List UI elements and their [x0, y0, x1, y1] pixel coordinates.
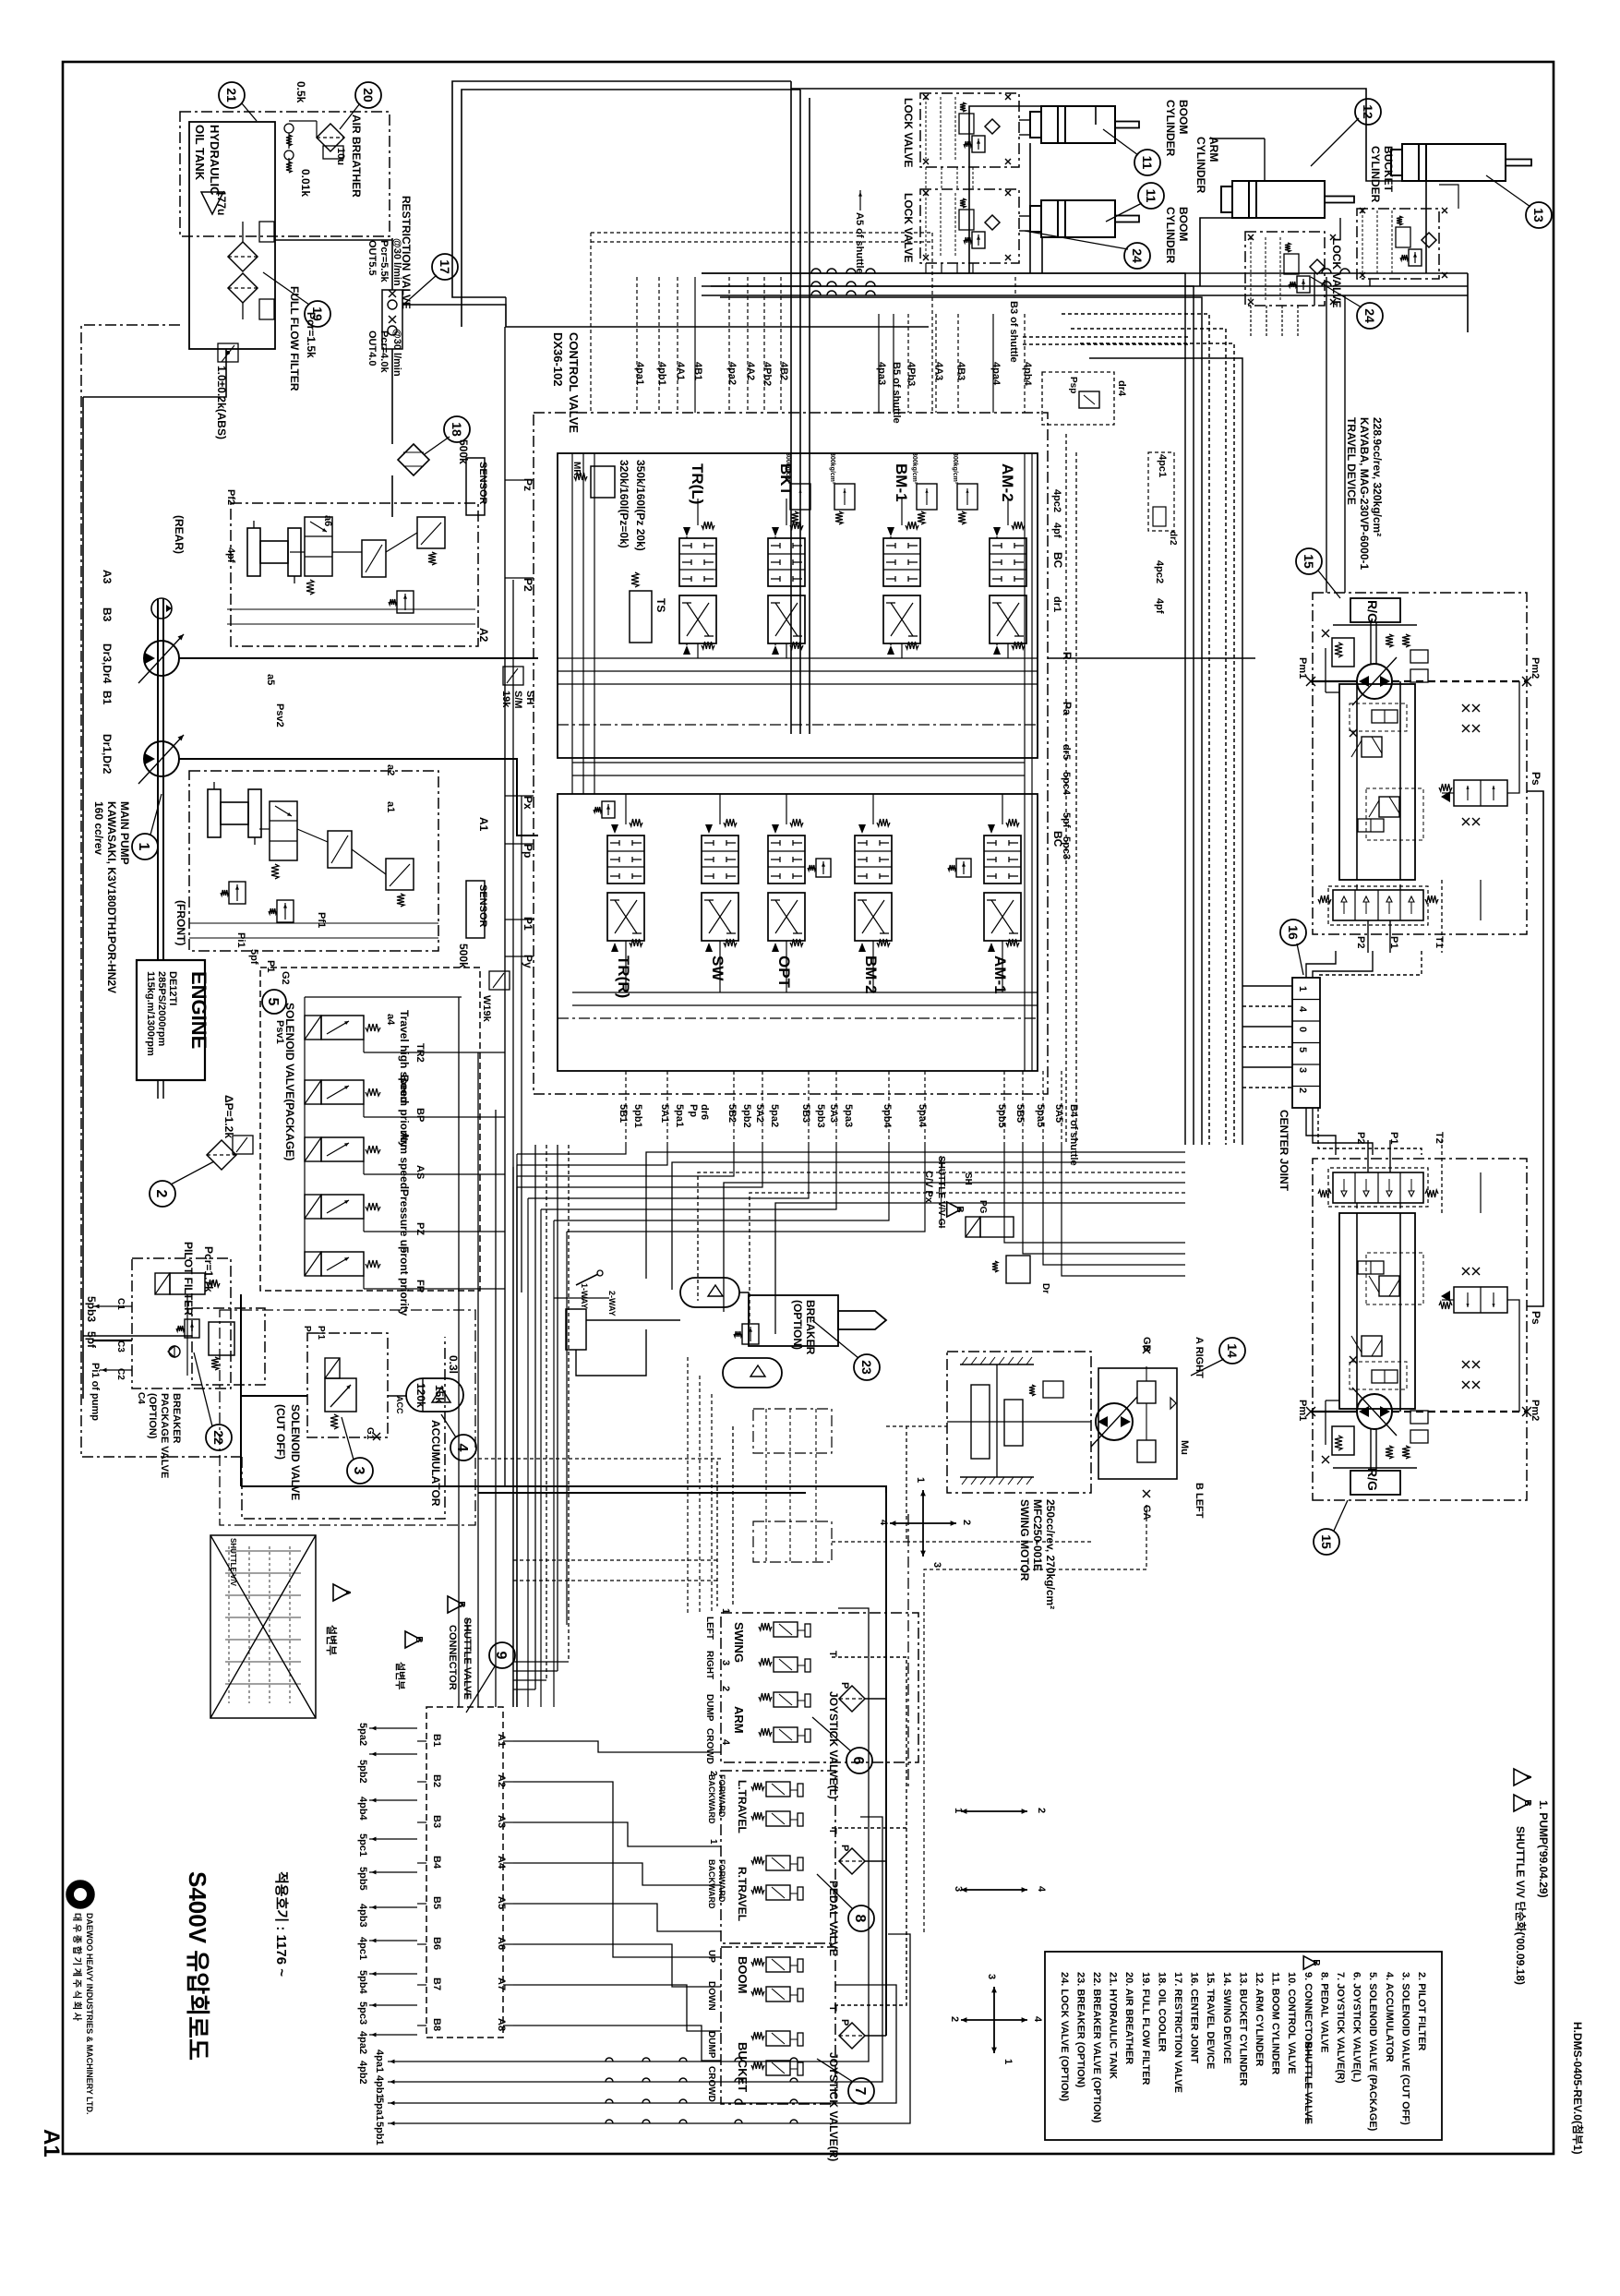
tank-restriction wires	[391, 238, 393, 290]
svg-text:4: 4	[1036, 1886, 1047, 1893]
svg-text:KAYABA, MAG-230VP-6000-1: KAYABA, MAG-230VP-6000-1	[1358, 417, 1371, 571]
svg-text:4: 4	[720, 1739, 731, 1746]
svg-text:17. RESTRICTION VALVE: 17. RESTRICTION VALVE	[1172, 1972, 1183, 2093]
svg-text:A5: A5	[496, 1896, 507, 1909]
svg-text:Psv2: Psv2	[274, 703, 285, 727]
svg-text:TRAVEL DEVICE: TRAVEL DEVICE	[1345, 417, 1358, 505]
parking brake	[1332, 1426, 1354, 1455]
svg-text:BREAKER: BREAKER	[804, 1300, 817, 1355]
svg-text:S/M: S/M	[512, 691, 523, 709]
svg-text:dr2: dr2	[1168, 531, 1178, 546]
svg-text:7: 7	[852, 2087, 868, 2096]
solenoid valve Pressure up	[305, 1195, 321, 1219]
cv spool risers upper	[697, 643, 699, 658]
svg-text:16. CENTER JOINT: 16. CENTER JOINT	[1189, 1972, 1200, 2063]
svg-text:4A2: 4A2	[745, 362, 756, 380]
travel internal pipes	[1326, 1400, 1339, 1401]
cv spool TR(L)	[679, 538, 716, 586]
breaker accumulators	[680, 1278, 739, 1307]
svg-text:3: 3	[986, 1974, 997, 1979]
breaker solenoid valve	[155, 1273, 170, 1294]
svg-text:A1: A1	[39, 2129, 64, 2158]
svg-text:8: 8	[852, 1915, 868, 1923]
control valve inner lower box	[558, 794, 1038, 1071]
legend box	[1045, 1952, 1442, 2140]
swing motor box 14	[947, 1352, 1091, 1493]
svg-text:Pcr=5.5k: Pcr=5.5k	[378, 240, 390, 282]
cv spool risers lower	[625, 794, 627, 824]
svg-text:177u: 177u	[215, 190, 228, 215]
solenoid valve Boom priority	[305, 1080, 321, 1104]
callout 20	[355, 82, 381, 108]
callout 8	[848, 1905, 874, 1931]
svg-text:BREAKER: BREAKER	[171, 1393, 182, 1443]
svg-text:CYLINDER: CYLINDER	[1369, 146, 1382, 203]
svg-text:OPT: OPT	[775, 956, 793, 989]
tank drain	[218, 343, 238, 362]
svg-text:B3: B3	[101, 607, 114, 622]
lock valve drop stubs	[925, 167, 927, 189]
svg-text:19: 19	[310, 307, 325, 321]
svg-text:B5: B5	[431, 1896, 442, 1909]
breaker option 23	[749, 1295, 838, 1346]
1-way 2-way valve	[566, 1309, 586, 1350]
cv top feeders	[636, 277, 638, 413]
svg-text:4pc2: 4pc2	[1051, 489, 1062, 512]
svg-text:R.TRAVEL: R.TRAVEL	[736, 1867, 749, 1921]
svg-text:L.TRAVEL: L.TRAVEL	[736, 1780, 749, 1833]
svg-text:DOWN: DOWN	[706, 1981, 716, 2011]
svg-text:2. PILOT FILTER: 2. PILOT FILTER	[1416, 1972, 1427, 2050]
solenoid valve Front priority	[305, 1252, 321, 1276]
travel motor	[1357, 1394, 1392, 1429]
svg-text:5pa5: 5pa5	[1035, 1104, 1046, 1127]
svg-text:160 cc/rev: 160 cc/rev	[92, 801, 105, 855]
callout 11	[1134, 150, 1160, 175]
svg-text:320k/160l(Pz=0k): 320k/160l(Pz=0k)	[618, 460, 630, 548]
svg-text:DUMP: DUMP	[704, 1694, 714, 1722]
svg-text:5pb1: 5pb1	[632, 1104, 643, 1128]
svg-text:9. CONNECTOR: 9. CONNECTOR	[1302, 1972, 1314, 2049]
travel motor	[1357, 664, 1392, 699]
svg-text:3: 3	[931, 1562, 942, 1568]
svg-text:CONNECTOR: CONNECTOR	[447, 1625, 458, 1690]
svg-text:Pcr=4.0k: Pcr=4.0k	[378, 331, 390, 373]
svg-text:17: 17	[438, 259, 452, 274]
svg-text:5pb2: 5pb2	[741, 1104, 752, 1128]
port relief 300kg	[834, 484, 855, 510]
callout 17	[432, 254, 458, 280]
svg-text:DX36-102: DX36-102	[551, 332, 565, 387]
main pump drive shaft	[157, 598, 159, 960]
bucket cylinder	[1402, 144, 1506, 181]
svg-text:14: 14	[1225, 1343, 1240, 1358]
svg-text:CENTER JOINT: CENTER JOINT	[1278, 1110, 1290, 1192]
rear regulator extra valves	[362, 540, 386, 577]
svg-text:5pf: 5pf	[1061, 812, 1072, 828]
Pm thick line	[1311, 680, 1357, 682]
svg-text:OUT4.0: OUT4.0	[366, 331, 378, 367]
svg-text:5B5: 5B5	[1014, 1104, 1026, 1123]
svg-text:15. TRAVEL DEVICE: 15. TRAVEL DEVICE	[1205, 1972, 1216, 2069]
svg-text:1: 1	[915, 1477, 926, 1483]
svg-text:P1: P1	[1388, 936, 1399, 948]
pilot supply group dash-dot box	[220, 1310, 475, 1525]
svg-text:5B1: 5B1	[618, 1104, 629, 1123]
svg-text:P: P	[839, 1845, 850, 1851]
svg-text:Dr: Dr	[1040, 1283, 1050, 1293]
svg-text:R/G: R/G	[1365, 600, 1380, 623]
svg-text:UP: UP	[706, 1950, 716, 1963]
center joint 16	[1292, 978, 1320, 1108]
callout 4	[450, 1435, 476, 1461]
svg-text:1: 1	[708, 1839, 718, 1845]
solenoid valve Arm speed	[305, 1137, 321, 1161]
joystick valve R box 7	[721, 1947, 835, 2104]
svg-text:B: B	[954, 1206, 965, 1212]
svg-text:BUCKET: BUCKET	[736, 2042, 750, 2092]
svg-text:FP: FP	[414, 1280, 426, 1292]
svg-text:3: 3	[953, 1886, 964, 1892]
svg-text:AIR BREATHER: AIR BREATHER	[350, 114, 363, 198]
svg-text:PILOT FILTER: PILOT FILTER	[182, 1242, 195, 1316]
solenoid package downlinks	[458, 997, 460, 1707]
svg-text:a1: a1	[385, 801, 396, 812]
svg-text:5pb2: 5pb2	[357, 1760, 368, 1784]
supply lines cutoff area	[240, 1294, 242, 1486]
svg-text:RIGHT: RIGHT	[704, 1651, 714, 1679]
svg-text:B4 of shuttle: B4 of shuttle	[1068, 1104, 1079, 1166]
travel internal pipes	[1326, 691, 1339, 693]
suction strainer 177u	[201, 192, 223, 214]
swing pilot valves	[980, 1217, 1014, 1237]
travel device 2 (15)	[1306, 1140, 1531, 1500]
svg-text:B1: B1	[431, 1734, 442, 1747]
svg-text:a5: a5	[265, 674, 276, 685]
svg-text:2: 2	[708, 1771, 718, 1776]
svg-text:G2: G2	[280, 971, 291, 985]
svg-text:4pf: 4pf	[1051, 523, 1062, 538]
svg-text:5pb3: 5pb3	[815, 1104, 826, 1128]
regulator box rear	[231, 503, 478, 646]
parking brake	[1332, 638, 1354, 667]
swing motor circle	[1096, 1403, 1133, 1440]
svg-text:Pf2: Pf2	[225, 489, 236, 505]
cv sensor boxes	[466, 458, 485, 515]
pedal valve box 8	[721, 1771, 835, 1943]
svg-text:5pa1: 5pa1	[674, 1104, 685, 1127]
svg-text:A: A	[342, 1589, 352, 1595]
svg-text:5. SOLENOID VALVE (PACKAGE): 5. SOLENOID VALVE (PACKAGE)	[1367, 1972, 1378, 2132]
solenoid valve Travel high speed	[305, 1016, 321, 1040]
svg-text:13. BUCKET CYLINDER: 13. BUCKET CYLINDER	[1237, 1972, 1248, 2086]
lock valve arm	[1245, 232, 1325, 306]
svg-text:B: B	[414, 1636, 424, 1642]
svg-text:B8: B8	[431, 2018, 442, 2031]
svg-text:P: P	[839, 1682, 850, 1689]
regulator box front	[189, 771, 438, 951]
svg-text:300kg/cm²: 300kg/cm²	[911, 452, 918, 485]
svg-text:PZ: PZ	[414, 1222, 426, 1235]
svg-text:5pc1: 5pc1	[357, 1833, 368, 1857]
svg-text:4B1: 4B1	[692, 362, 703, 380]
svg-text:OUT5.5: OUT5.5	[366, 240, 378, 276]
svg-text:P1: P1	[265, 960, 276, 972]
svg-text:4pb1: 4pb1	[656, 362, 667, 386]
svg-text:Pi1 of pump: Pi1 of pump	[90, 1363, 101, 1421]
svg-text:BOOM: BOOM	[1177, 100, 1190, 134]
svg-text:4pa3: 4pa3	[876, 362, 887, 385]
svg-text:TR(L): TR(L)	[689, 463, 706, 504]
cv-bottom fanout right	[1004, 1145, 1185, 1243]
svg-text:5: 5	[265, 998, 281, 1006]
svg-text:2: 2	[949, 2016, 960, 2022]
callout 15	[1314, 1529, 1339, 1555]
svg-text:4Pb3: 4Pb3	[906, 362, 917, 386]
svg-text:Ps: Ps	[1530, 1311, 1542, 1325]
cv spool BM-1	[883, 538, 920, 586]
svg-text:B7: B7	[431, 1977, 442, 1990]
svg-text:CONTROL VALVE: CONTROL VALVE	[567, 332, 581, 433]
svg-text:SHUTTLE VALVE: SHUTTLE VALVE	[462, 1617, 473, 1700]
check valve	[169, 1346, 180, 1357]
svg-text:4Pb2: 4Pb2	[762, 362, 773, 386]
cylinder horizontal bundle	[702, 272, 1468, 274]
svg-text:R/G: R/G	[1365, 1468, 1380, 1491]
svg-text:21. HYDRAULIC TANK: 21. HYDRAULIC TANK	[1108, 1972, 1119, 2079]
dashed bundle right of cv top	[1023, 336, 1191, 338]
arm cyl risers	[1264, 138, 1266, 181]
package internal bus	[304, 997, 306, 1276]
svg-text:FULL FLOW FILTER: FULL FLOW FILTER	[288, 286, 301, 391]
svg-text:4pa2: 4pa2	[357, 2031, 368, 2054]
svg-text:4: 4	[1032, 2016, 1043, 2023]
svg-text:BM-1: BM-1	[893, 463, 910, 502]
air breather 20	[284, 124, 294, 133]
svg-text:Front priority: Front priority	[398, 1246, 411, 1316]
svg-text:MR: MR	[571, 462, 582, 476]
svg-text:대 우 종 합 기 계 주 식 회 사: 대 우 종 합 기 계 주 식 회 사	[71, 1913, 83, 2022]
front regulator internals	[208, 789, 221, 837]
svg-text:BOOM: BOOM	[736, 1956, 750, 1993]
swing supply dashed loop	[886, 1425, 947, 1427]
boom cylinder 1	[1041, 106, 1115, 143]
svg-text:TS: TS	[654, 598, 667, 612]
svg-text:B5 of shuttle: B5 of shuttle	[891, 362, 902, 424]
callout 6	[846, 1748, 872, 1773]
callout 18	[444, 416, 470, 442]
swing feed bundle	[717, 1459, 721, 1606]
svg-text:300kg/cm²: 300kg/cm²	[952, 452, 958, 485]
port relief 300kg	[917, 484, 937, 510]
svg-text:OIL TANK: OIL TANK	[193, 125, 207, 181]
svg-text:Pm1: Pm1	[1297, 1400, 1308, 1421]
svg-text:300kg/cm²: 300kg/cm²	[785, 452, 791, 485]
bucket lock valve 24	[1357, 209, 1439, 279]
svg-text:23. BREAKER (OPTION): 23. BREAKER (OPTION)	[1074, 1972, 1086, 2088]
svg-text:0.5k: 0.5k	[294, 81, 307, 103]
svg-text:5pb5: 5pb5	[996, 1104, 1007, 1128]
wjumps on long bottom lines	[606, 2058, 613, 2062]
bottom spool 4cell	[1333, 890, 1423, 920]
svg-text:FORWARD: FORWARD	[717, 1859, 726, 1903]
svg-text:228.9cc/rev, 320kg/cm²: 228.9cc/rev, 320kg/cm²	[1371, 417, 1384, 536]
svg-text:0.01k: 0.01k	[299, 169, 312, 197]
svg-text:4A1: 4A1	[675, 362, 686, 380]
svg-text:(REAR): (REAR)	[173, 515, 186, 554]
svg-text:dr6: dr6	[699, 1104, 710, 1120]
svg-text:AM-2: AM-2	[999, 463, 1016, 502]
svg-text:2: 2	[153, 1190, 169, 1198]
svg-text:5pf: 5pf	[85, 1331, 98, 1349]
svg-text:CYLINDER: CYLINDER	[1164, 207, 1177, 264]
svg-text:Pm1: Pm1	[1297, 657, 1308, 679]
travel 2-speed valve	[1454, 780, 1507, 806]
svg-text:6: 6	[850, 1757, 866, 1765]
ENGINE box	[137, 960, 205, 1080]
svg-text:24. LOCK VALVE (OPTION): 24. LOCK VALVE (OPTION)	[1059, 1972, 1070, 2101]
svg-text:B2: B2	[431, 1774, 442, 1787]
callout 16	[1280, 920, 1306, 945]
svg-text:P: P	[302, 1326, 312, 1332]
svg-text:Dr1,Dr2: Dr1,Dr2	[101, 734, 114, 775]
svg-text:Pp: Pp	[522, 844, 534, 858]
callout 23	[854, 1354, 880, 1380]
cv-bottom fanout to the left/bottom	[517, 1145, 626, 1154]
svg-text:Pa: Pa	[1061, 702, 1074, 715]
arm cylinder	[1232, 181, 1325, 218]
svg-text:3: 3	[720, 1660, 731, 1665]
svg-text:500k: 500k	[457, 439, 470, 464]
R/G gearbox	[1350, 1471, 1400, 1495]
swing brake	[1043, 1381, 1063, 1398]
svg-text:W19k: W19k	[481, 995, 492, 1023]
upper dashed crossties	[591, 232, 932, 234]
svg-text:4: 4	[1297, 1006, 1308, 1013]
svg-text:T: T	[827, 1651, 838, 1657]
port relief 300kg	[790, 484, 810, 510]
svg-text:5B3: 5B3	[800, 1104, 811, 1123]
counterbalance valve block	[1339, 1213, 1415, 1409]
svg-text:B6: B6	[431, 1937, 442, 1950]
svg-text:SHUTTLE V/V GI: SHUTTLE V/V GI	[936, 1156, 946, 1229]
svg-text:5B2: 5B2	[726, 1104, 738, 1123]
svg-text:10u: 10u	[335, 148, 346, 165]
hydraulic oil tank box 21	[180, 112, 390, 236]
svg-text:BACKWARD: BACKWARD	[707, 1774, 716, 1824]
cv spool OPT	[768, 835, 805, 884]
svg-text:AM-1: AM-1	[991, 956, 1009, 994]
swing area pilot shuttle boxes	[753, 1409, 832, 1453]
company logo	[66, 1881, 94, 1908]
svg-text:A RIGHT: A RIGHT	[1194, 1337, 1205, 1378]
svg-text:24: 24	[1362, 308, 1377, 323]
svg-text:SHUTTLE V/V 단순화('00.09.18): SHUTTLE V/V 단순화('00.09.18)	[1514, 1826, 1528, 1985]
supply to pilot filters	[885, 1493, 887, 2036]
callout 3	[347, 1458, 373, 1484]
svg-text:18. OIL COOLER: 18. OIL COOLER	[1156, 1972, 1167, 2052]
travel 2-speed valve	[1454, 1287, 1507, 1313]
svg-text:P2: P2	[522, 578, 534, 592]
svg-text:BOOM: BOOM	[1177, 207, 1190, 241]
svg-text:A2: A2	[477, 628, 490, 643]
svg-text:B3: B3	[431, 1815, 442, 1828]
svg-text:A7: A7	[496, 1977, 507, 1990]
svg-text:TR(R): TR(R)	[615, 956, 632, 998]
package outputs to feed verticals	[406, 1052, 505, 1053]
svg-text:11. BOOM CYLINDER: 11. BOOM CYLINDER	[1270, 1972, 1281, 2074]
svg-text:A1: A1	[496, 1734, 507, 1747]
svg-text:4pb4: 4pb4	[1022, 362, 1033, 387]
svg-text:CYLINDER: CYLINDER	[1194, 137, 1207, 194]
svg-text:1. PUMP('99.04.29): 1. PUMP('99.04.29)	[1537, 1800, 1550, 1898]
svg-text:115kg.m/1300rpm: 115kg.m/1300rpm	[145, 971, 156, 1056]
svg-text:5pb1: 5pb1	[374, 2122, 385, 2146]
svg-text:Ps: Ps	[1530, 772, 1542, 786]
pilot filter 2	[192, 1308, 265, 1385]
svg-text:LOCK VALVE: LOCK VALVE	[902, 193, 915, 263]
rear regulator internals	[247, 528, 260, 576]
callout 2	[150, 1181, 175, 1207]
svg-text:설변부: 설변부	[325, 1625, 339, 1655]
callout 13	[1526, 202, 1552, 228]
svg-text:10. CONTROL VALVE: 10. CONTROL VALVE	[1286, 1972, 1297, 2074]
svg-text:ΔP=1.2k: ΔP=1.2k	[222, 1095, 235, 1138]
svg-text:4: 4	[878, 1520, 889, 1526]
svg-text:(OPTION): (OPTION)	[147, 1393, 158, 1439]
svg-text:AS: AS	[414, 1165, 426, 1179]
travel1 to center joint links	[1306, 951, 1336, 978]
front regulator extra valves	[328, 831, 352, 868]
bottom spool 4cell	[1333, 1172, 1423, 1203]
control valve outer box 10	[534, 413, 1048, 1094]
svg-text:24: 24	[1130, 248, 1145, 263]
svg-text:11: 11	[1144, 189, 1158, 203]
solenoid cut-off valve box	[307, 1333, 388, 1437]
svg-text:SHUTTLE V/V: SHUTTLE V/V	[229, 1538, 237, 1587]
XX port marks	[1462, 1381, 1470, 1388]
svg-text:5pa2: 5pa2	[357, 1723, 368, 1746]
pilot feed verticals to CV	[504, 327, 506, 1486]
callout 14	[1219, 1338, 1245, 1364]
svg-text:4pa1: 4pa1	[374, 2050, 385, 2073]
svg-text:a6: a6	[322, 515, 333, 526]
Ps connecting line	[1527, 791, 1543, 1306]
svg-text:19. FULL FLOW FILTER: 19. FULL FLOW FILTER	[1140, 1972, 1151, 2085]
svg-text:B1: B1	[101, 691, 114, 705]
svg-text:FORWARD: FORWARD	[717, 1774, 726, 1818]
svg-text:250cc/rev, 270kg/cm²: 250cc/rev, 270kg/cm²	[1044, 1499, 1057, 1609]
svg-text:a4: a4	[385, 1014, 396, 1026]
svg-text:3. SOLENOID VALVE (CUT OFF): 3. SOLENOID VALVE (CUT OFF)	[1399, 1972, 1410, 2125]
svg-text:Mu: Mu	[1179, 1440, 1190, 1455]
svg-text:Pi1: Pi1	[316, 1326, 326, 1340]
svg-text:A3: A3	[496, 1815, 507, 1828]
cv spool BKT	[768, 538, 805, 586]
center joint to travel2 links	[1306, 1108, 1336, 1155]
svg-text:4pa4: 4pa4	[990, 362, 1002, 386]
extra dashed crossties above connector	[513, 1559, 720, 1561]
svg-text:(CUT OFF): (CUT OFF)	[274, 1404, 287, 1460]
svg-text:1-WAY: 1-WAY	[580, 1283, 589, 1309]
XX port marks	[1462, 704, 1470, 712]
svg-text:DAEWOO HEAVY INDUSTRIES & MACH: DAEWOO HEAVY INDUSTRIES & MACHINERY LTD.	[85, 1913, 94, 2115]
4pc1 pilot box	[1148, 452, 1174, 531]
svg-text:A3: A3	[101, 570, 114, 584]
svg-text:15: 15	[1302, 554, 1316, 569]
svg-text:22: 22	[211, 1430, 226, 1445]
svg-text:A6: A6	[496, 1937, 507, 1950]
